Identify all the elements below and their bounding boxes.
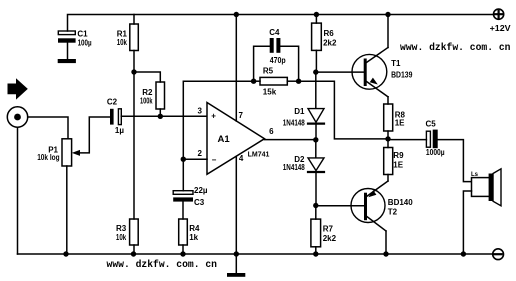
capacitor C4 <box>269 28 286 65</box>
wire: T1 emitter to R8 <box>387 97 389 104</box>
resistor R1 <box>117 15 139 73</box>
svg-text:470p: 470p <box>270 56 286 65</box>
svg-text:1µ: 1µ <box>115 126 124 135</box>
svg-text:100k: 100k <box>140 97 153 106</box>
svg-text:1N4148: 1N4148 <box>283 118 305 127</box>
node: feedback/R5/C4 right junction <box>296 79 301 84</box>
diode D1 1N4148 <box>283 72 324 140</box>
wire: junction to R2 top <box>134 72 160 82</box>
svg-text:LM741: LM741 <box>248 152 270 159</box>
transistor T2 BD140 <box>351 181 413 231</box>
terminal: 0V (minus) <box>493 249 504 260</box>
node: feedback/R5/C4 left junction <box>251 79 256 84</box>
potentiometer P1 <box>37 139 80 254</box>
wire: junction to T1 base <box>316 71 364 73</box>
wire: feedback to output node <box>299 81 388 139</box>
node: P1 bottom on rail <box>63 251 68 256</box>
watermark bottom <box>107 259 218 270</box>
ground (below C1) <box>58 59 76 63</box>
svg-text:C2: C2 <box>107 98 118 107</box>
svg-text:R9: R9 <box>393 151 404 160</box>
svg-text:2: 2 <box>198 149 203 158</box>
wire: jack down to bottom rail <box>17 127 19 254</box>
node: R4 bottom on rail <box>180 251 185 256</box>
wire: pin 7 supply <box>235 15 237 122</box>
wire: T2 collector to bottom rail <box>385 231 387 254</box>
svg-text:D1: D1 <box>294 107 305 116</box>
resistor R4 <box>179 219 200 254</box>
wire: C2 to op-amp +input <box>121 115 207 117</box>
resistor R7 <box>311 206 337 255</box>
node: T2 collector on rail <box>383 251 388 256</box>
node: pin4 on bottom rail <box>234 251 239 256</box>
svg-text:+12V: +12V <box>490 24 512 33</box>
svg-text:1k: 1k <box>189 233 198 242</box>
svg-text:T1: T1 <box>391 59 401 68</box>
node: R3 bottom on rail <box>131 251 136 256</box>
node: R6/D1/T1-base junction <box>313 69 318 74</box>
transistor T1 BD139 <box>352 48 413 97</box>
wire: pin 2 to feedback node <box>183 158 207 160</box>
resistor R3 <box>116 219 138 254</box>
svg-text:15k: 15k <box>263 88 277 97</box>
wire: +12V top rail <box>68 15 495 32</box>
svg-text:2k2: 2k2 <box>323 38 337 47</box>
svg-text:R6: R6 <box>324 29 335 38</box>
svg-text:1E: 1E <box>393 160 403 169</box>
wire: C4 left branch <box>254 46 270 81</box>
svg-text:C3: C3 <box>194 198 205 207</box>
node: speaker wire on rail <box>461 251 466 256</box>
capacitor C2 <box>107 98 124 135</box>
resistor R5 <box>254 66 299 96</box>
capacitor C5 <box>426 120 445 158</box>
op-amp A1 <box>198 103 275 175</box>
node: pin7 on top rail <box>234 12 239 17</box>
svg-text:7: 7 <box>239 111 244 120</box>
svg-text:T2: T2 <box>388 208 398 217</box>
wire: pin 4 down through bottom rail <box>235 157 237 274</box>
node: D2/R7/T2-base junction <box>313 203 318 208</box>
svg-text:3: 3 <box>198 106 203 115</box>
svg-text:Ls: Ls <box>471 172 479 178</box>
svg-text:1E: 1E <box>395 118 405 127</box>
terminal: +12V <box>490 9 512 33</box>
capacitor C3 <box>173 186 208 219</box>
wire: output node to C5 <box>388 139 426 141</box>
node: T1 collector on rail <box>385 12 390 17</box>
svg-text:−: − <box>212 156 217 165</box>
wire: jack to P1 top <box>28 117 68 139</box>
resistor R9 <box>384 139 404 181</box>
svg-text:www. dzkfw. com. cn: www. dzkfw. com. cn <box>400 42 511 53</box>
resistor R8 <box>384 104 406 139</box>
svg-text:www. dzkfw. com. cn: www. dzkfw. com. cn <box>107 259 218 270</box>
resistor R6 <box>312 15 337 73</box>
svg-text:R5: R5 <box>263 66 274 75</box>
svg-text:1N4148: 1N4148 <box>283 163 305 172</box>
wire: junction down to R3 (crosses input line) <box>133 72 135 219</box>
node: R2 bottom on +input line <box>158 114 163 119</box>
node: R6 top on rail <box>314 12 319 17</box>
svg-text:R4: R4 <box>189 224 200 233</box>
node: pin2/C3/feedback junction <box>181 157 186 162</box>
wire: op-amp output pin 6 to diode junction <box>265 139 316 141</box>
svg-text:1000µ: 1000µ <box>426 148 445 157</box>
node: D1/D2/pin6 junction <box>313 137 318 142</box>
node: R7 bottom on rail <box>313 251 318 256</box>
svg-text:10k log: 10k log <box>37 153 59 162</box>
svg-text:C1: C1 <box>77 30 88 39</box>
wire: C5 to speaker top <box>438 140 472 182</box>
wire: bottom rail <box>18 253 493 255</box>
wire: T1 collector to rail <box>387 15 389 48</box>
svg-text:+: + <box>211 112 216 121</box>
watermark top right <box>400 42 511 53</box>
svg-text:R3: R3 <box>116 224 127 233</box>
speaker Ls <box>471 169 501 206</box>
wire: P1 wiper to C2 <box>80 117 110 153</box>
svg-text:C5: C5 <box>426 120 437 129</box>
wire: speaker bottom to rail <box>463 191 471 254</box>
svg-text:10k: 10k <box>116 233 127 242</box>
ground (below bottom rail) <box>227 273 245 277</box>
wire: junction down to C3 <box>182 159 184 191</box>
svg-text:R7: R7 <box>323 225 334 234</box>
svg-text:22µ: 22µ <box>194 186 208 195</box>
svg-text:BD139: BD139 <box>391 71 413 80</box>
diode D2 1N4148 <box>283 140 324 206</box>
input jack J1 <box>7 107 27 127</box>
svg-text:C4: C4 <box>269 28 280 37</box>
wire: feedback vertical and horizontal to R5 <box>183 81 253 159</box>
capacitor C1 <box>58 30 92 59</box>
input arrow <box>8 78 28 99</box>
svg-text:2k2: 2k2 <box>323 234 337 243</box>
svg-text:10k: 10k <box>117 38 128 47</box>
svg-text:A1: A1 <box>218 134 231 145</box>
wire: C4 right branch <box>280 46 298 81</box>
svg-text:BD140: BD140 <box>388 198 413 207</box>
node: output node R8/R9/C5 <box>385 136 390 141</box>
node: R1/R2/R3 junction <box>131 69 136 74</box>
svg-text:4: 4 <box>239 154 244 163</box>
wire: junction to T2 base <box>316 205 364 207</box>
svg-text:100µ: 100µ <box>78 39 92 48</box>
resistor R2 <box>140 82 165 116</box>
svg-text:6: 6 <box>269 127 274 136</box>
